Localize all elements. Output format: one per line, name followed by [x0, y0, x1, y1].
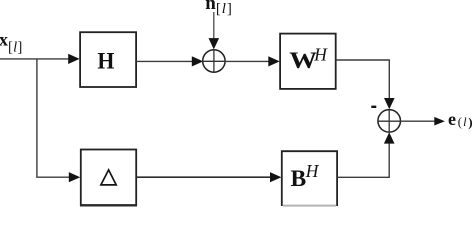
- block B^H: [282, 151, 337, 206]
- wire: adder2 to output: [401, 120, 436, 122]
- wire: H to adder1: [136, 60, 193, 62]
- adder1 summation node: [203, 50, 225, 73]
- wire: adder1 to W^H: [225, 60, 270, 62]
- adder2 summation node: [378, 110, 401, 133]
- arrowhead into W^H: [268, 56, 279, 66]
- block W^H: [280, 34, 336, 89]
- svg-text:e: e: [448, 109, 456, 129]
- label W^H: [289, 45, 328, 74]
- svg-text:H: H: [305, 161, 320, 181]
- svg-text:H: H: [313, 45, 328, 65]
- arrowhead into adder2 from top: [384, 98, 395, 109]
- input label x_[l]: [0, 30, 23, 56]
- noise label n_[l]: [205, 0, 233, 17]
- svg-text:[l]: [l]: [216, 1, 233, 17]
- wire: input line from left edge to H: [0, 58, 69, 60]
- output label e_(l): [448, 109, 473, 129]
- wire: B^H right then up to adder2: [337, 143, 389, 178]
- arrowhead into adder1 from left: [192, 56, 203, 66]
- wire: n down to adder1: [213, 12, 215, 40]
- svg-text:B: B: [291, 166, 307, 192]
- svg-text:x: x: [0, 30, 8, 50]
- arrowhead into adder2 from bottom: [384, 132, 395, 143]
- svg-text:n: n: [205, 0, 216, 14]
- label B^H: [291, 161, 320, 192]
- svg-text:H: H: [97, 48, 114, 74]
- arrowhead into adder1 from top: [209, 38, 220, 49]
- block Delta: [80, 150, 137, 206]
- label Delta: [101, 170, 116, 185]
- arrowhead into H: [68, 54, 79, 64]
- svg-text:): ): [468, 114, 472, 129]
- wire: Delta to B^H: [136, 176, 272, 178]
- svg-text:(l: (l: [458, 115, 468, 129]
- minus sign at adder2: [371, 106, 376, 108]
- block H: [80, 32, 136, 87]
- wire: W^H right then down to adder2: [336, 60, 390, 99]
- wire: branch down and right to Delta: [37, 59, 70, 177]
- arrowhead into B^H: [270, 172, 281, 182]
- arrowhead into Delta: [69, 172, 80, 182]
- svg-text:[l]: [l]: [8, 39, 23, 55]
- arrowhead at output: [434, 117, 445, 126]
